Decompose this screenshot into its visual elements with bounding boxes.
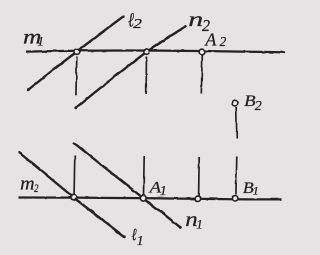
svg-text:2: 2 <box>255 99 262 114</box>
svg-text:1: 1 <box>196 216 203 231</box>
svg-text:2: 2 <box>133 17 142 32</box>
svg-text:A: A <box>204 30 217 50</box>
svg-text:1: 1 <box>160 184 167 199</box>
svg-text:1: 1 <box>253 183 259 197</box>
svg-text:2: 2 <box>34 181 39 195</box>
svg-text:2: 2 <box>220 34 227 49</box>
svg-text:1: 1 <box>37 34 44 49</box>
svg-text:m: m <box>20 173 35 194</box>
svg-text:1: 1 <box>137 234 144 249</box>
